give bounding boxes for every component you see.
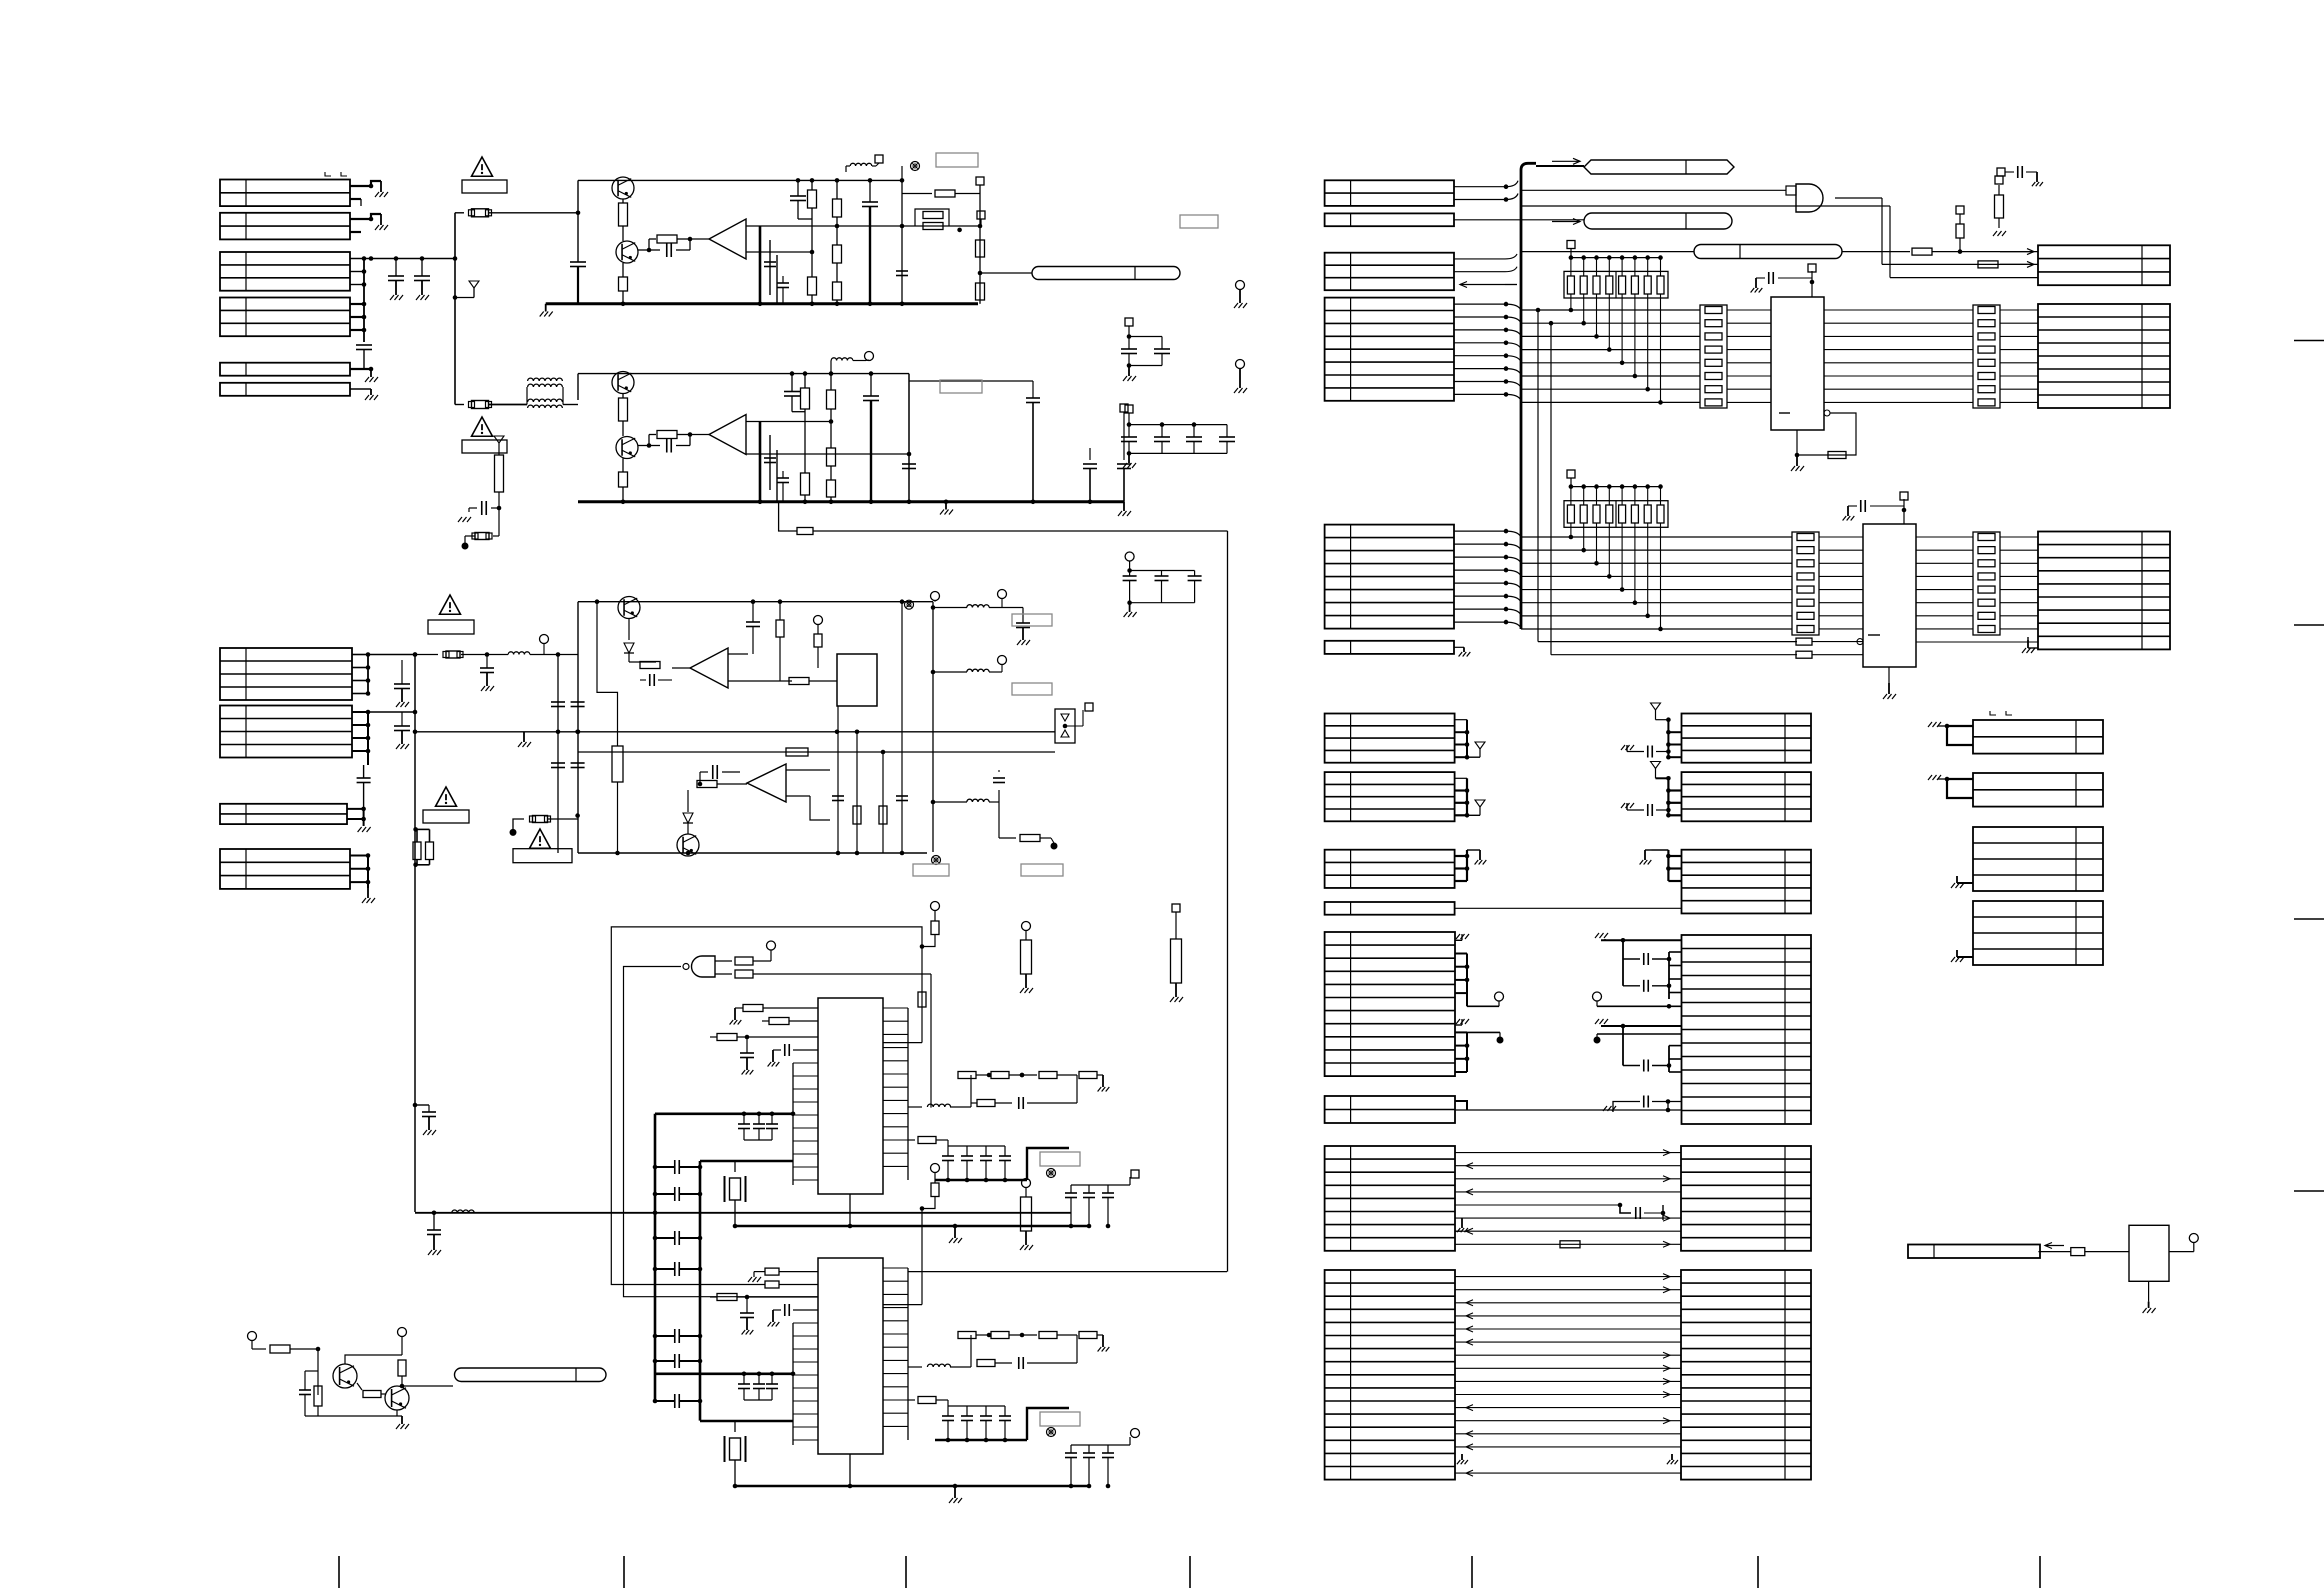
resistor R531: [931, 921, 939, 935]
antenna E301: [494, 436, 504, 443]
circled-cross TP105: [932, 856, 941, 865]
ground U502: [954, 1226, 956, 1238]
wire x1623 lower: [1622, 1026, 1624, 1066]
connector CN407: [1973, 827, 2103, 891]
capacitor C206: [896, 270, 908, 272]
connector CN104: [220, 298, 350, 337]
transistor Q104: [677, 834, 699, 856]
ground CN101: [380, 181, 382, 192]
capacitor C435: [1623, 1065, 1640, 1067]
ground CN207 row7: [1455, 1024, 1462, 1026]
pad P504: [1108, 1184, 1130, 1186]
capacitor C430: [1656, 751, 1668, 753]
pad P531: [1172, 904, 1180, 912]
label box W5: [513, 849, 572, 863]
signal pill J401: [1584, 160, 1734, 174]
wire U403 out row9: [1916, 641, 2038, 643]
wires CN108 joiner: [352, 711, 368, 713]
connector CN110: [220, 849, 350, 889]
connector CN101: [220, 180, 350, 207]
resistor column RC1: [1700, 305, 1727, 408]
transistor Q202: [616, 241, 638, 263]
caps between buses: [674, 1160, 676, 1174]
transistor Q501: [333, 1364, 357, 1388]
resistor R532: [1021, 940, 1032, 974]
transistor Q201: [612, 177, 634, 199]
resistor R302: [622, 394, 624, 399]
wire junction y226: [902, 225, 980, 227]
antenna CN420: [1467, 756, 1480, 758]
fold mark bottom 7: [2039, 1556, 2041, 1588]
wire y206 drop: [1880, 205, 1890, 207]
wire col x1090: [1089, 448, 1091, 460]
resistor R205: [808, 277, 817, 295]
connector CN405: [1973, 720, 2103, 754]
vertical caps col x558: [557, 655, 559, 854]
resistor R503: [398, 1360, 406, 1376]
label box W2: [462, 440, 507, 453]
nand gate U501: [692, 956, 715, 977]
pad P301: [1120, 404, 1128, 412]
resistor R504: [357, 1383, 362, 1390]
label box U502: [1040, 1152, 1080, 1166]
wire Q202: [622, 226, 624, 241]
fold mark bottom 5: [1471, 1556, 1473, 1588]
label box blk3b: [1021, 864, 1063, 876]
pin TP403: [1236, 360, 1245, 369]
wire CN208 to CN409: [1455, 1109, 1681, 1111]
transistor Q103: [618, 597, 640, 619]
vertical resistor R404: [1995, 195, 2004, 218]
resistor array RA2: [1564, 501, 1668, 528]
capacitor C202: [649, 249, 660, 251]
ground CN106: [370, 389, 372, 395]
wire pill3 left: [1521, 251, 1694, 253]
wire U301 in2: [785, 421, 831, 423]
warning triangle W2: [472, 417, 493, 436]
wire net W1 loop: [611, 927, 922, 1285]
capacitor C513: [784, 1304, 786, 1316]
wire U103 out: [672, 667, 690, 669]
transistor Q502: [385, 1386, 409, 1410]
capacitor C112: [433, 1213, 435, 1230]
zener D103: [628, 619, 630, 641]
joiner CN207 lower: [1455, 1031, 1467, 1033]
transistor Q301: [612, 372, 634, 394]
op-amp U301: [690, 434, 709, 436]
wire x922 drop U503: [921, 1209, 923, 1305]
IC U403: [1863, 524, 1916, 667]
wire col x831 amp2: [829, 371, 834, 376]
wires CN205 to bus: [1454, 530, 1506, 532]
connector CN302: [2038, 304, 2170, 408]
joiner CN430: [1667, 720, 1669, 758]
wires CN203 to bus: [1454, 258, 1505, 260]
thick bus upper U503: [655, 1373, 793, 1376]
IC U502 left pin stubs: [792, 1063, 794, 1185]
coax pill J201: [1032, 267, 1180, 280]
pin TP531: [1022, 922, 1031, 931]
fold mark right 4: [2294, 1190, 2324, 1192]
capacitor C205: [777, 282, 789, 284]
antenna CN421: [1467, 814, 1480, 816]
wires CN109 joiner: [347, 808, 364, 810]
resistor R203: [649, 238, 656, 240]
ground bracket CN405: [1947, 726, 1973, 745]
wire R501 to base: [317, 1349, 319, 1395]
connector CN105: [220, 363, 350, 376]
fold mark bottom 4: [1189, 1556, 1191, 1588]
resistor R522: [908, 1399, 915, 1401]
pin TP109: [931, 592, 940, 601]
pi filter amp2: [759, 422, 762, 502]
crystal X502: [734, 1161, 736, 1172]
joiner CN433 lower: [1668, 1046, 1670, 1072]
capacitor C102: [421, 259, 423, 277]
connector CN431: [1682, 772, 1812, 821]
op-amp U201: [690, 238, 709, 240]
connector CN108: [220, 706, 352, 758]
wire V0 from top rail: [597, 602, 618, 746]
arrow into CN301 row1: [2000, 251, 2034, 253]
fuse F104: [533, 816, 548, 823]
warning triangle W5: [530, 829, 551, 848]
resistor R117: [612, 746, 623, 782]
thick out bus U503: [935, 1439, 1027, 1441]
wire U201 inputs: [746, 225, 785, 227]
caps trio right U503: [1071, 1444, 1108, 1446]
fold mark right 1: [2294, 340, 2324, 342]
wire CN104 rows joiner: [350, 303, 364, 305]
feedback loop U402: [1824, 410, 1830, 416]
resistor R501: [270, 1345, 290, 1353]
wire amp2 bottom rail: [578, 500, 1124, 503]
arrow feed pill2: [1552, 221, 1580, 223]
signal pill J403: [1694, 245, 1842, 259]
ground CN407: [1957, 882, 1973, 884]
pad P103: [1085, 703, 1093, 711]
IC U403 ground: [1888, 667, 1890, 683]
and gate U401: [1786, 186, 1796, 195]
wire AND to CN301 row2: [1882, 263, 2038, 265]
warning triangle W4: [436, 787, 457, 806]
row2 network U503: [977, 1360, 995, 1367]
label box W4: [423, 810, 469, 823]
resistor R401: [1912, 248, 1932, 255]
label box L104: [1012, 614, 1052, 626]
node bus1 vertical: [454, 213, 456, 405]
terminal E104: [510, 829, 517, 836]
wire Q501 collector: [345, 1355, 402, 1364]
wire amp1 top rail: [578, 179, 902, 181]
resistor R515: [717, 1294, 737, 1301]
ground CN433 row7: [1595, 1019, 1599, 1024]
wire blk3 top rail: [578, 601, 933, 603]
inductor L502: [908, 1106, 922, 1108]
signal pill J402: [1584, 213, 1732, 229]
wire y206: [1521, 205, 1880, 207]
ground CN206: [1454, 646, 1464, 648]
label box amp2: [940, 380, 982, 393]
ground C301: [458, 517, 462, 522]
wire Q502 out: [402, 1385, 453, 1387]
pin TP104: [814, 616, 823, 625]
joiner CN420: [1455, 719, 1467, 721]
label box W3: [428, 620, 474, 634]
joiner CN432: [1668, 855, 1681, 857]
capacitor C107: [401, 660, 403, 684]
connector CN205: [1325, 525, 1454, 629]
inductor L104: [967, 605, 989, 608]
pad P204: [977, 211, 985, 219]
capacitor group CG3: [1125, 405, 1133, 413]
wire x1623 upper: [1622, 940, 1624, 986]
wire Q302 base RC: [638, 445, 649, 447]
terminal dot E302: [462, 543, 469, 550]
wire amp2 col x909: [908, 374, 910, 502]
wire vertical col x798: [797, 180, 799, 196]
circled-cross TP108: [905, 600, 914, 609]
op-amp U103: [690, 648, 728, 688]
wire CN103 rows to joiner: [350, 271, 364, 273]
capacitor C302: [649, 445, 660, 447]
wire col x980: [979, 185, 981, 304]
IC U503 right pin stubs: [907, 1268, 909, 1440]
resistor R210: [976, 240, 985, 257]
capacitor C101: [395, 259, 397, 277]
connector CN303: [2038, 532, 2170, 650]
resistor array RA1: [1564, 271, 1668, 298]
ground Q pair: [401, 1416, 403, 1424]
inductor L503: [908, 1366, 922, 1368]
ground U601: [2148, 1282, 2150, 1302]
pin TP502: [401, 1345, 403, 1355]
pi filter L-C amp1: [759, 226, 762, 304]
ground bracket CN208: [1455, 1101, 1467, 1110]
connector CN204: [1325, 298, 1454, 401]
warning triangle W1: [472, 157, 493, 176]
ground amp1 rail: [545, 304, 547, 312]
pad P405 top: [1811, 282, 1813, 297]
resistor R305: [803, 371, 808, 376]
capacitor C301: [481, 501, 483, 515]
capacitor C307: [1117, 463, 1131, 465]
capacitor C304: [869, 371, 874, 376]
inductor L105: [967, 669, 989, 672]
resistor R507: [743, 1005, 763, 1012]
connector CN208: [1325, 1096, 1455, 1123]
IC-A bus lines: [1521, 309, 1700, 311]
ground amp2 right: [1123, 502, 1125, 511]
resistor R208: [833, 282, 842, 300]
capacitor C111: [413, 1103, 418, 1108]
capacitor C434: [1623, 985, 1640, 987]
antenna symbol E101: [453, 295, 458, 300]
capacitor C501: [305, 1370, 318, 1372]
capacitor C305: [777, 477, 789, 479]
capacitor C503: [784, 1044, 786, 1056]
wire long vertical to IC2: [1227, 531, 1229, 1272]
caps trio U502: [743, 1114, 745, 1124]
connector CN422: [1325, 850, 1455, 888]
resistor R301: [495, 455, 504, 492]
pin TP103: [543, 643, 545, 655]
capacitor C115: [752, 602, 754, 622]
wire bus to pill1: [1536, 165, 1584, 167]
capacitor C103: [356, 344, 372, 346]
resistor R211: [976, 283, 985, 300]
resistor column RC2: [1973, 305, 2000, 408]
arrow feed pill1: [1552, 160, 1580, 162]
connector CN209: [1325, 1146, 1455, 1251]
transistor Q302: [616, 437, 638, 459]
wire top rail stub up: [901, 166, 903, 180]
circled-cross TP201: [911, 162, 920, 171]
wire U503 right feed: [908, 1271, 1227, 1273]
thick bottom bus U503: [735, 1485, 1090, 1488]
wire Q202 base to RC: [638, 249, 649, 251]
thick bus lower U503: [700, 1420, 793, 1423]
pin TP601: [2189, 1234, 2198, 1243]
inductor L103: [508, 652, 530, 655]
crystal X503: [734, 1421, 736, 1432]
pin TP408: [1593, 992, 1602, 1001]
ground CN105: [370, 369, 372, 377]
pin TP501: [248, 1332, 257, 1341]
connector CN210: [1325, 1270, 1455, 1480]
wire col x837: [835, 178, 840, 183]
wire CN108 to bus2: [368, 711, 415, 713]
label box amp1 top: [936, 153, 978, 167]
fold mark bottom 1: [338, 1556, 340, 1588]
pad P406: [1567, 470, 1575, 478]
label box blk3a: [913, 864, 949, 876]
gate output resistors R505 R506: [715, 960, 732, 962]
thick bus lower: [700, 1160, 793, 1163]
capacitor C113: [485, 652, 490, 657]
circled-cross TP505: [1047, 1428, 1056, 1437]
resistor R530: [918, 992, 926, 1007]
resistor R304: [649, 434, 656, 436]
fuse F301: [498, 508, 500, 536]
wire y190: [1521, 189, 1786, 191]
resistor R536 gnd line: [753, 1272, 755, 1277]
inductor L201: [846, 165, 850, 167]
resistor column RC4: [1973, 532, 2000, 635]
resistor R535: [1171, 939, 1182, 983]
connector CN408: [1973, 901, 2103, 965]
ground CN408: [1957, 956, 1973, 958]
resistor R512: [908, 1139, 915, 1141]
inductor L301: [830, 361, 832, 374]
capacitor C117: [1022, 608, 1024, 624]
resistor R303: [622, 459, 624, 473]
resistor chain U502: [970, 1075, 972, 1107]
ground amp2 rail: [945, 502, 947, 510]
capacitor C108: [401, 712, 403, 726]
warning triangle W3: [440, 595, 461, 614]
joiner CN207 upper: [1455, 953, 1467, 955]
wire CN103 row1 to node VCC1: [350, 258, 455, 260]
wire bus2 bottom corner: [415, 1212, 1071, 1214]
capacitor C203: [790, 195, 806, 197]
pin TP530: [931, 902, 940, 911]
fuse F102: [455, 404, 464, 406]
resistor R307: [827, 390, 836, 409]
wire CN202 to pill: [1454, 219, 1584, 221]
resistor R402 vertical: [1959, 238, 1961, 252]
wires CN201 to bus: [1454, 186, 1506, 188]
joiner CN421: [1455, 777, 1467, 779]
capacitor C402: [1870, 505, 1904, 507]
thick left verticals: [654, 1114, 657, 1401]
ground CN102: [380, 214, 382, 225]
IC U503 bottom stem: [849, 1454, 851, 1486]
resistor R533: [1021, 1197, 1032, 1231]
resistor R115: [814, 634, 822, 647]
resistor R116: [779, 602, 781, 620]
thick out bus U502: [935, 1179, 1027, 1181]
IC U503 main: [818, 1258, 883, 1454]
thick bus upper: [655, 1113, 793, 1116]
wire CN102 to ground: [350, 214, 381, 219]
pin TP506: [1108, 1444, 1130, 1446]
connector CN406: [1973, 773, 2103, 807]
ground CN110: [367, 888, 369, 898]
wire U105 inputs: [786, 769, 830, 771]
connector CN421: [1325, 772, 1455, 821]
resistor R509: [717, 1034, 737, 1041]
wire bottom rail Q pair: [305, 1415, 402, 1417]
wire Q201 emitter: [622, 199, 624, 203]
wire col x902: [901, 180, 903, 303]
resistor pair R111 R112: [413, 827, 418, 832]
wire net W2 nand input: [624, 967, 819, 1297]
wire amp2 left vertical: [577, 374, 579, 400]
wire blk3 bottom rail: [578, 852, 927, 854]
caps quartet U502: [948, 1145, 1005, 1147]
ground CN303: [2028, 647, 2038, 649]
arrow into CN203: [1460, 284, 1517, 286]
capacitor C306: [902, 463, 916, 465]
wire CN107 to bus2: [368, 654, 415, 656]
arrow into CN502: [2045, 1245, 2064, 1247]
wires CN210 CN411: [1455, 1276, 1681, 1278]
caps trio U503: [743, 1374, 745, 1384]
ground CN209 row6: [1461, 1218, 1463, 1228]
fuse F103: [415, 654, 438, 656]
IC U402: [1771, 297, 1824, 430]
ground CN433 row1: [1595, 933, 1599, 938]
IC U601: [2129, 1225, 2169, 1281]
capacitor C204: [868, 178, 873, 183]
capacitor C114: [649, 674, 651, 686]
wire pill3 to CN301: [1842, 251, 1910, 253]
connector CN432: [1682, 850, 1812, 914]
connector CN207: [1325, 932, 1455, 1076]
pad P404: [1567, 241, 1575, 249]
terminal CN207: [1467, 1031, 1500, 1033]
fold mark right 2: [2294, 624, 2324, 626]
arrow into CN301 row2: [2000, 263, 2034, 265]
ground bracket CN406: [1947, 779, 1973, 798]
pad P401: [1956, 206, 1964, 214]
pad P402: [1995, 176, 2003, 184]
label box W1: [462, 180, 507, 193]
resistor R308: [827, 448, 836, 466]
wire mid rail y731.8: [415, 731, 1055, 733]
connector CN106: [220, 383, 350, 396]
